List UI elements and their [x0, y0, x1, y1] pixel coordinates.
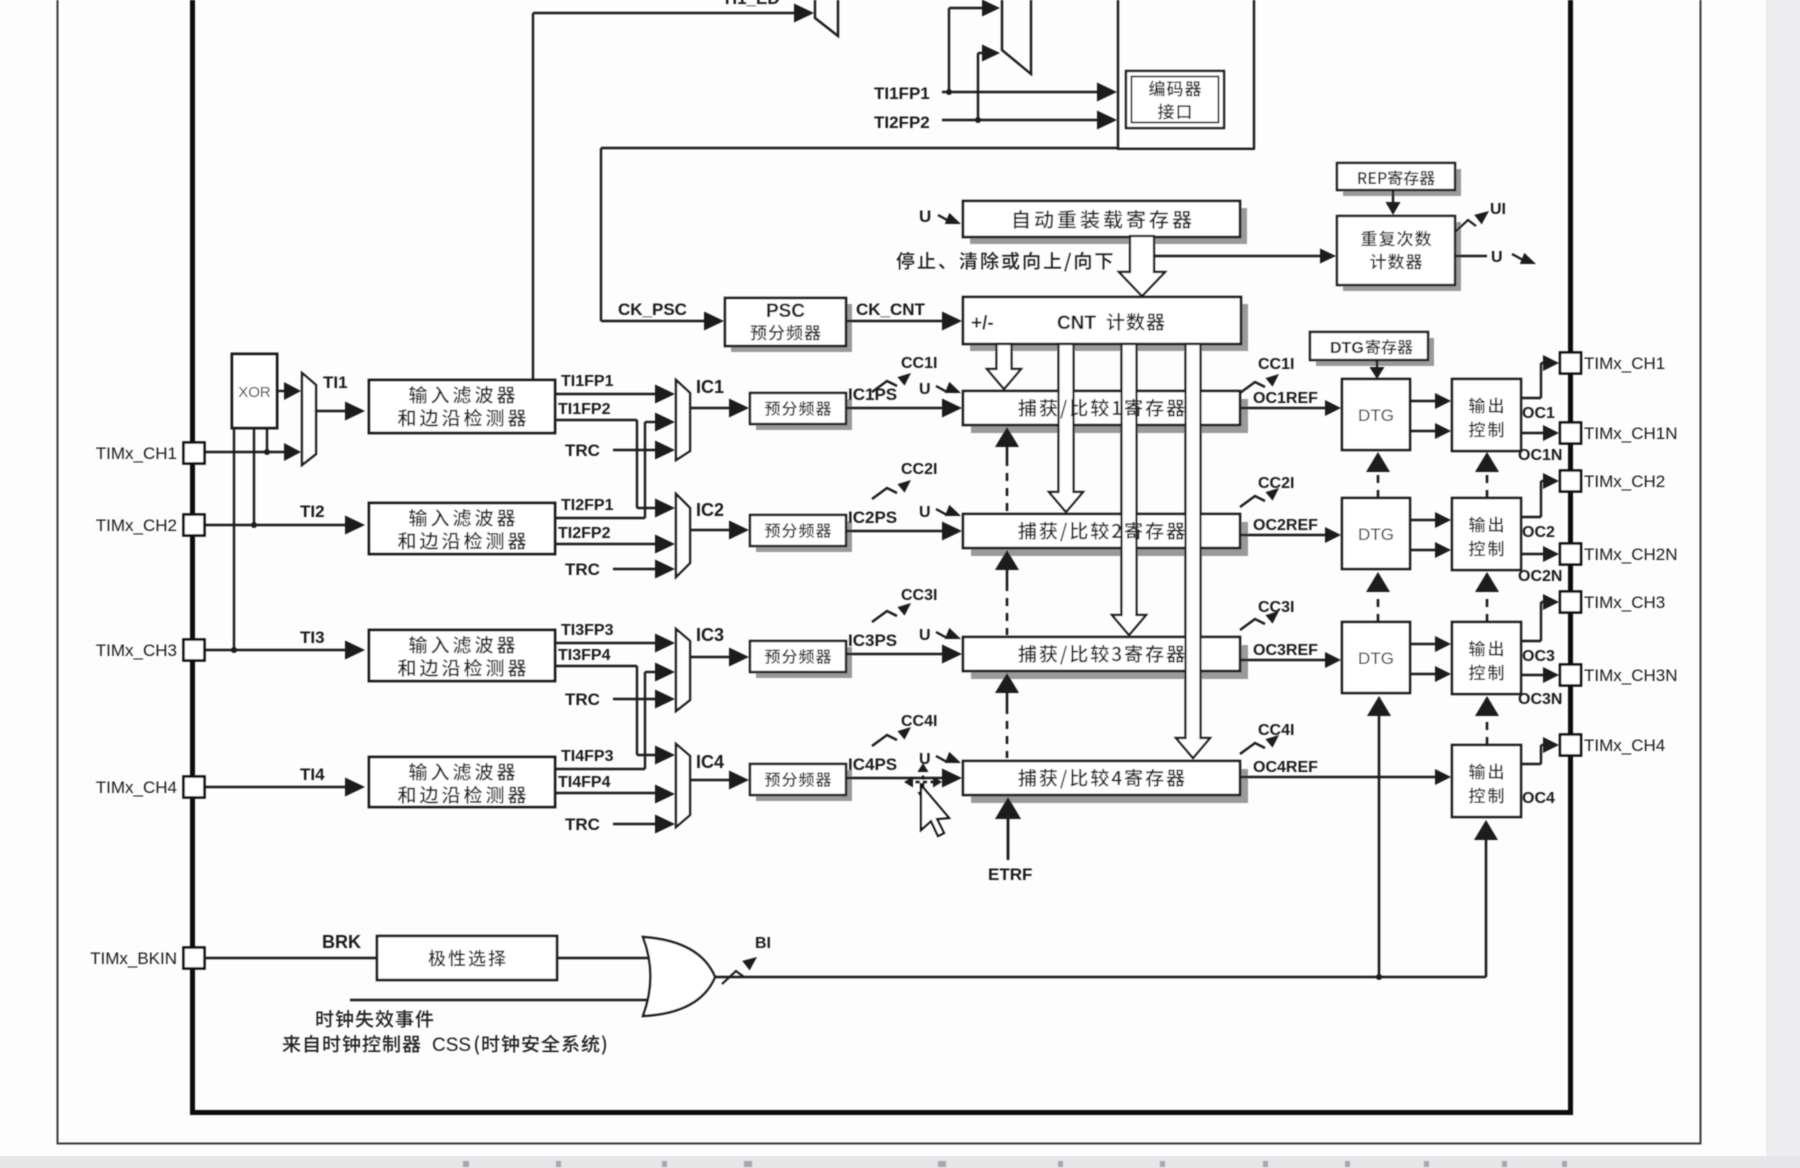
svg-text:DTG: DTG: [1358, 649, 1394, 668]
svg-text:TIMx_CH4: TIMx_CH4: [1584, 736, 1665, 755]
svg-text:CK_CNT: CK_CNT: [856, 300, 926, 319]
svg-text:TI1FP1: TI1FP1: [561, 373, 614, 390]
svg-text:TI1_ED: TI1_ED: [722, 0, 780, 8]
svg-text:TI4FP3: TI4FP3: [561, 748, 614, 765]
svg-text:IC4: IC4: [696, 752, 724, 772]
svg-text:CC2I: CC2I: [901, 461, 937, 478]
svg-text:OC2N: OC2N: [1518, 568, 1562, 585]
svg-text:CSS: CSS: [432, 1035, 471, 1056]
svg-text:TI1FP2: TI1FP2: [558, 401, 611, 418]
svg-text:TI2FP2: TI2FP2: [874, 113, 930, 132]
svg-text:DTG: DTG: [1358, 406, 1394, 425]
svg-text:IC4PS: IC4PS: [848, 755, 897, 774]
svg-text:IC2: IC2: [696, 500, 724, 520]
svg-text:CNT: CNT: [1057, 313, 1096, 334]
svg-text:TIMx_CH1: TIMx_CH1: [96, 444, 177, 463]
svg-text:TI4: TI4: [300, 765, 325, 784]
svg-text:IC3: IC3: [696, 625, 724, 645]
svg-text:TRC: TRC: [565, 690, 600, 709]
svg-text:TIMx_CH1N: TIMx_CH1N: [1584, 424, 1678, 443]
svg-text:TIMx_CH2: TIMx_CH2: [1584, 472, 1665, 491]
svg-text:U: U: [919, 504, 931, 521]
svg-text:TI1: TI1: [323, 373, 348, 392]
svg-text:TIMx_CH3N: TIMx_CH3N: [1584, 666, 1678, 685]
svg-text:DTG: DTG: [1358, 525, 1394, 544]
svg-text:TRC: TRC: [565, 560, 600, 579]
svg-text:CC4I: CC4I: [901, 713, 937, 730]
svg-text:OC4REF: OC4REF: [1253, 759, 1318, 776]
svg-text:U: U: [1491, 249, 1503, 266]
svg-text:OC2REF: OC2REF: [1253, 517, 1318, 534]
svg-text:TI3: TI3: [300, 628, 325, 647]
svg-text:U: U: [919, 751, 931, 768]
svg-text:UI: UI: [1490, 201, 1506, 218]
svg-text:IC1PS: IC1PS: [848, 385, 897, 404]
svg-text:OC1REF: OC1REF: [1253, 390, 1318, 407]
svg-text:TI2: TI2: [300, 502, 325, 521]
svg-text:+/-: +/-: [971, 313, 994, 334]
svg-text:TI3FP3: TI3FP3: [561, 622, 614, 639]
svg-text:OC4: OC4: [1522, 790, 1555, 807]
svg-text:TIMx_CH2N: TIMx_CH2N: [1584, 545, 1678, 564]
svg-text:TIMx_CH2: TIMx_CH2: [96, 516, 177, 535]
svg-text:DTG: DTG: [1330, 340, 1364, 357]
svg-text:TIMx_CH3: TIMx_CH3: [96, 641, 177, 660]
svg-text:TIMx_BKIN: TIMx_BKIN: [90, 949, 177, 968]
svg-text:OC2: OC2: [1522, 524, 1555, 541]
svg-text:XOR: XOR: [238, 384, 271, 401]
svg-text:OC3: OC3: [1522, 648, 1555, 665]
svg-text:TIMx_CH1: TIMx_CH1: [1584, 354, 1665, 373]
svg-text:TI3FP4: TI3FP4: [558, 647, 611, 664]
svg-text:ETRF: ETRF: [988, 865, 1032, 884]
svg-text:U: U: [919, 207, 931, 226]
svg-text:CC1I: CC1I: [1258, 356, 1294, 373]
svg-text:U: U: [919, 627, 931, 644]
svg-text:TI2FP1: TI2FP1: [561, 497, 614, 514]
svg-text:CC1I: CC1I: [901, 355, 937, 372]
svg-text:BI: BI: [755, 935, 771, 952]
svg-text:TRC: TRC: [565, 441, 600, 460]
svg-text:TI1FP1: TI1FP1: [874, 84, 930, 103]
svg-text:TIMx_CH3: TIMx_CH3: [1584, 593, 1665, 612]
svg-text:OC3N: OC3N: [1518, 691, 1562, 708]
svg-text:U: U: [919, 381, 931, 398]
svg-text:IC2PS: IC2PS: [848, 508, 897, 527]
svg-text:CC3I: CC3I: [901, 587, 937, 604]
svg-text:OC1N: OC1N: [1518, 447, 1562, 464]
svg-text:PSC: PSC: [766, 301, 805, 322]
svg-text:CK_PSC: CK_PSC: [618, 300, 687, 319]
svg-text:OC3REF: OC3REF: [1253, 642, 1318, 659]
svg-text:IC3PS: IC3PS: [848, 631, 897, 650]
svg-text:IC1: IC1: [696, 377, 724, 397]
svg-text:TRC: TRC: [565, 815, 600, 834]
svg-text:TIMx_CH4: TIMx_CH4: [96, 778, 177, 797]
svg-text:TI2FP2: TI2FP2: [558, 525, 611, 542]
svg-text:TI4FP4: TI4FP4: [558, 774, 611, 791]
svg-text:BRK: BRK: [322, 932, 361, 952]
svg-text:OC1: OC1: [1522, 405, 1555, 422]
